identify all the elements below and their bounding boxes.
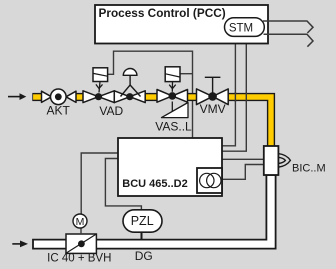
svg-text:IC 40 + BVH: IC 40 + BVH	[47, 253, 111, 265]
solenoid actuator VAS	[165, 67, 180, 82]
stem with arrow VAD stage 1	[96, 82, 103, 93]
svg-text:STM: STM	[229, 23, 253, 35]
slow-opening ramp symbol VAS..L	[162, 102, 189, 118]
wire crossing over pipe x=246.3	[245, 92, 247, 102]
STM output wire 2 with chevron	[264, 34, 314, 46]
pipe segment VMV to burner (corner down)	[227, 97, 271, 147]
valve VAS..L (solenoid valve slow opening)	[157, 90, 188, 103]
svg-text:BIC..M: BIC..M	[292, 162, 326, 174]
STM output wire 1 with chevron	[263, 21, 313, 33]
wire ignition transformer to BIC	[223, 165, 265, 180]
inlet arrow (bottom)	[12, 241, 28, 248]
BCU 465..D2 box	[118, 138, 222, 196]
valve VMV (manual valve)	[197, 89, 229, 105]
pipe segment inlet to AKT	[32, 93, 42, 101]
T-bar actuator VMV	[205, 77, 221, 93]
svg-text:AKT: AKT	[47, 104, 71, 118]
inlet arrow (top)	[8, 93, 26, 100]
wire PCC box to BCU right (x=235.4)	[222, 44, 235, 146]
Process Control (PCC) box	[95, 5, 268, 44]
svg-text:BCU 465..D2: BCU 465..D2	[122, 178, 187, 190]
stem with arrow VAS	[169, 82, 176, 92]
PZL pressure switch oval	[123, 210, 162, 240]
svg-text:VMV: VMV	[200, 102, 226, 116]
motor M circle	[73, 214, 87, 234]
wire BCU left to PZL	[105, 159, 141, 211]
svg-text:DG: DG	[135, 249, 153, 263]
pipe segment AKT to VAD	[75, 93, 85, 101]
ignition transformer box with circles	[197, 168, 222, 193]
solenoid actuator VAD stage 1	[93, 68, 108, 82]
valve VAD (double solenoid valve)	[83, 91, 145, 103]
burner gas pipe (bottom) with burner tube	[33, 175, 276, 249]
pipe segment VAD to VAS	[144, 93, 158, 101]
IC 40 + BVH actuator valve	[66, 234, 96, 253]
wire STM oval to BCU right (x=246.3)	[222, 37, 246, 151]
wire VAD solenoid to VAS solenoid to BCU (inverted U)	[108, 51, 193, 138]
burner BIC..M	[264, 146, 279, 175]
pipe segment VAS to VMV	[187, 93, 198, 101]
svg-text:M: M	[76, 216, 85, 228]
svg-text:VAS..L: VAS..L	[155, 120, 192, 134]
wire crossing over pipe x=235.4	[234, 92, 236, 102]
flame detector icon	[278, 154, 290, 168]
STM oval	[225, 18, 265, 37]
wire BCU right to BIC flame rod	[222, 158, 264, 160]
svg-text:Process Control (PCC): Process Control (PCC)	[99, 6, 226, 20]
svg-text:PZL: PZL	[131, 214, 154, 228]
valve AKT (butterfly valve with actuator)	[42, 89, 77, 105]
main gas pipe (yellow) segments	[32, 97, 271, 147]
svg-text:VAD: VAD	[99, 104, 123, 118]
wire BCU left to motor M	[81, 153, 118, 215]
diaphragm actuator VAD stage 2 (dome)	[121, 69, 141, 97]
